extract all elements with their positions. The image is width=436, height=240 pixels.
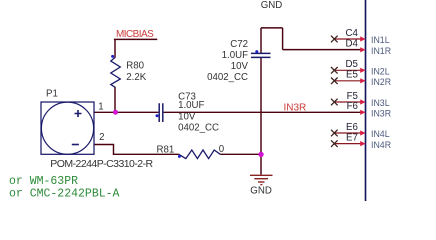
svg-text:IN4L: IN4L [371, 129, 390, 139]
svg-text:1.0UF: 1.0UF [178, 100, 204, 111]
svg-text:IN1L: IN1L [371, 35, 390, 45]
svg-text:F6: F6 [347, 101, 358, 112]
svg-text:0: 0 [219, 144, 225, 155]
svg-text:P1: P1 [46, 89, 58, 100]
svg-text:POM-2244P-C3310-2-R: POM-2244P-C3310-2-R [50, 158, 153, 170]
svg-text:C72: C72 [230, 39, 248, 50]
svg-text:C4: C4 [346, 28, 359, 39]
svg-text:IN2R: IN2R [371, 77, 391, 87]
svg-text:E6: E6 [346, 122, 358, 133]
svg-text:or CMC-2242PBL-A: or CMC-2242PBL-A [9, 187, 120, 200]
svg-text:R81: R81 [157, 145, 175, 156]
svg-text:0402_CC: 0402_CC [178, 123, 219, 134]
svg-text:D5: D5 [346, 59, 358, 70]
svg-text:IN1R: IN1R [371, 46, 391, 56]
svg-text:2: 2 [99, 132, 104, 143]
svg-text:GND: GND [250, 186, 272, 197]
svg-text:E5: E5 [346, 70, 358, 81]
svg-text:1: 1 [98, 102, 103, 113]
svg-text:0402_CC: 0402_CC [207, 72, 248, 83]
svg-text:MICBIAS: MICBIAS [116, 29, 154, 40]
svg-text:10V: 10V [178, 112, 196, 123]
svg-text:10V: 10V [231, 61, 249, 72]
svg-text:D4: D4 [346, 39, 359, 50]
svg-text:IN3R: IN3R [371, 109, 391, 119]
svg-text:E7: E7 [346, 133, 358, 144]
svg-text:or WM-63PR: or WM-63PR [9, 175, 78, 188]
svg-text:R80: R80 [126, 61, 144, 72]
svg-text:2.2K: 2.2K [126, 72, 146, 83]
svg-text:GND: GND [261, 0, 283, 11]
svg-text:IN4R: IN4R [371, 140, 391, 150]
svg-text:IN3R: IN3R [284, 103, 307, 114]
svg-text:1.0UF: 1.0UF [222, 50, 248, 61]
svg-text:IN2L: IN2L [371, 67, 390, 77]
svg-text:IN3L: IN3L [371, 98, 390, 108]
